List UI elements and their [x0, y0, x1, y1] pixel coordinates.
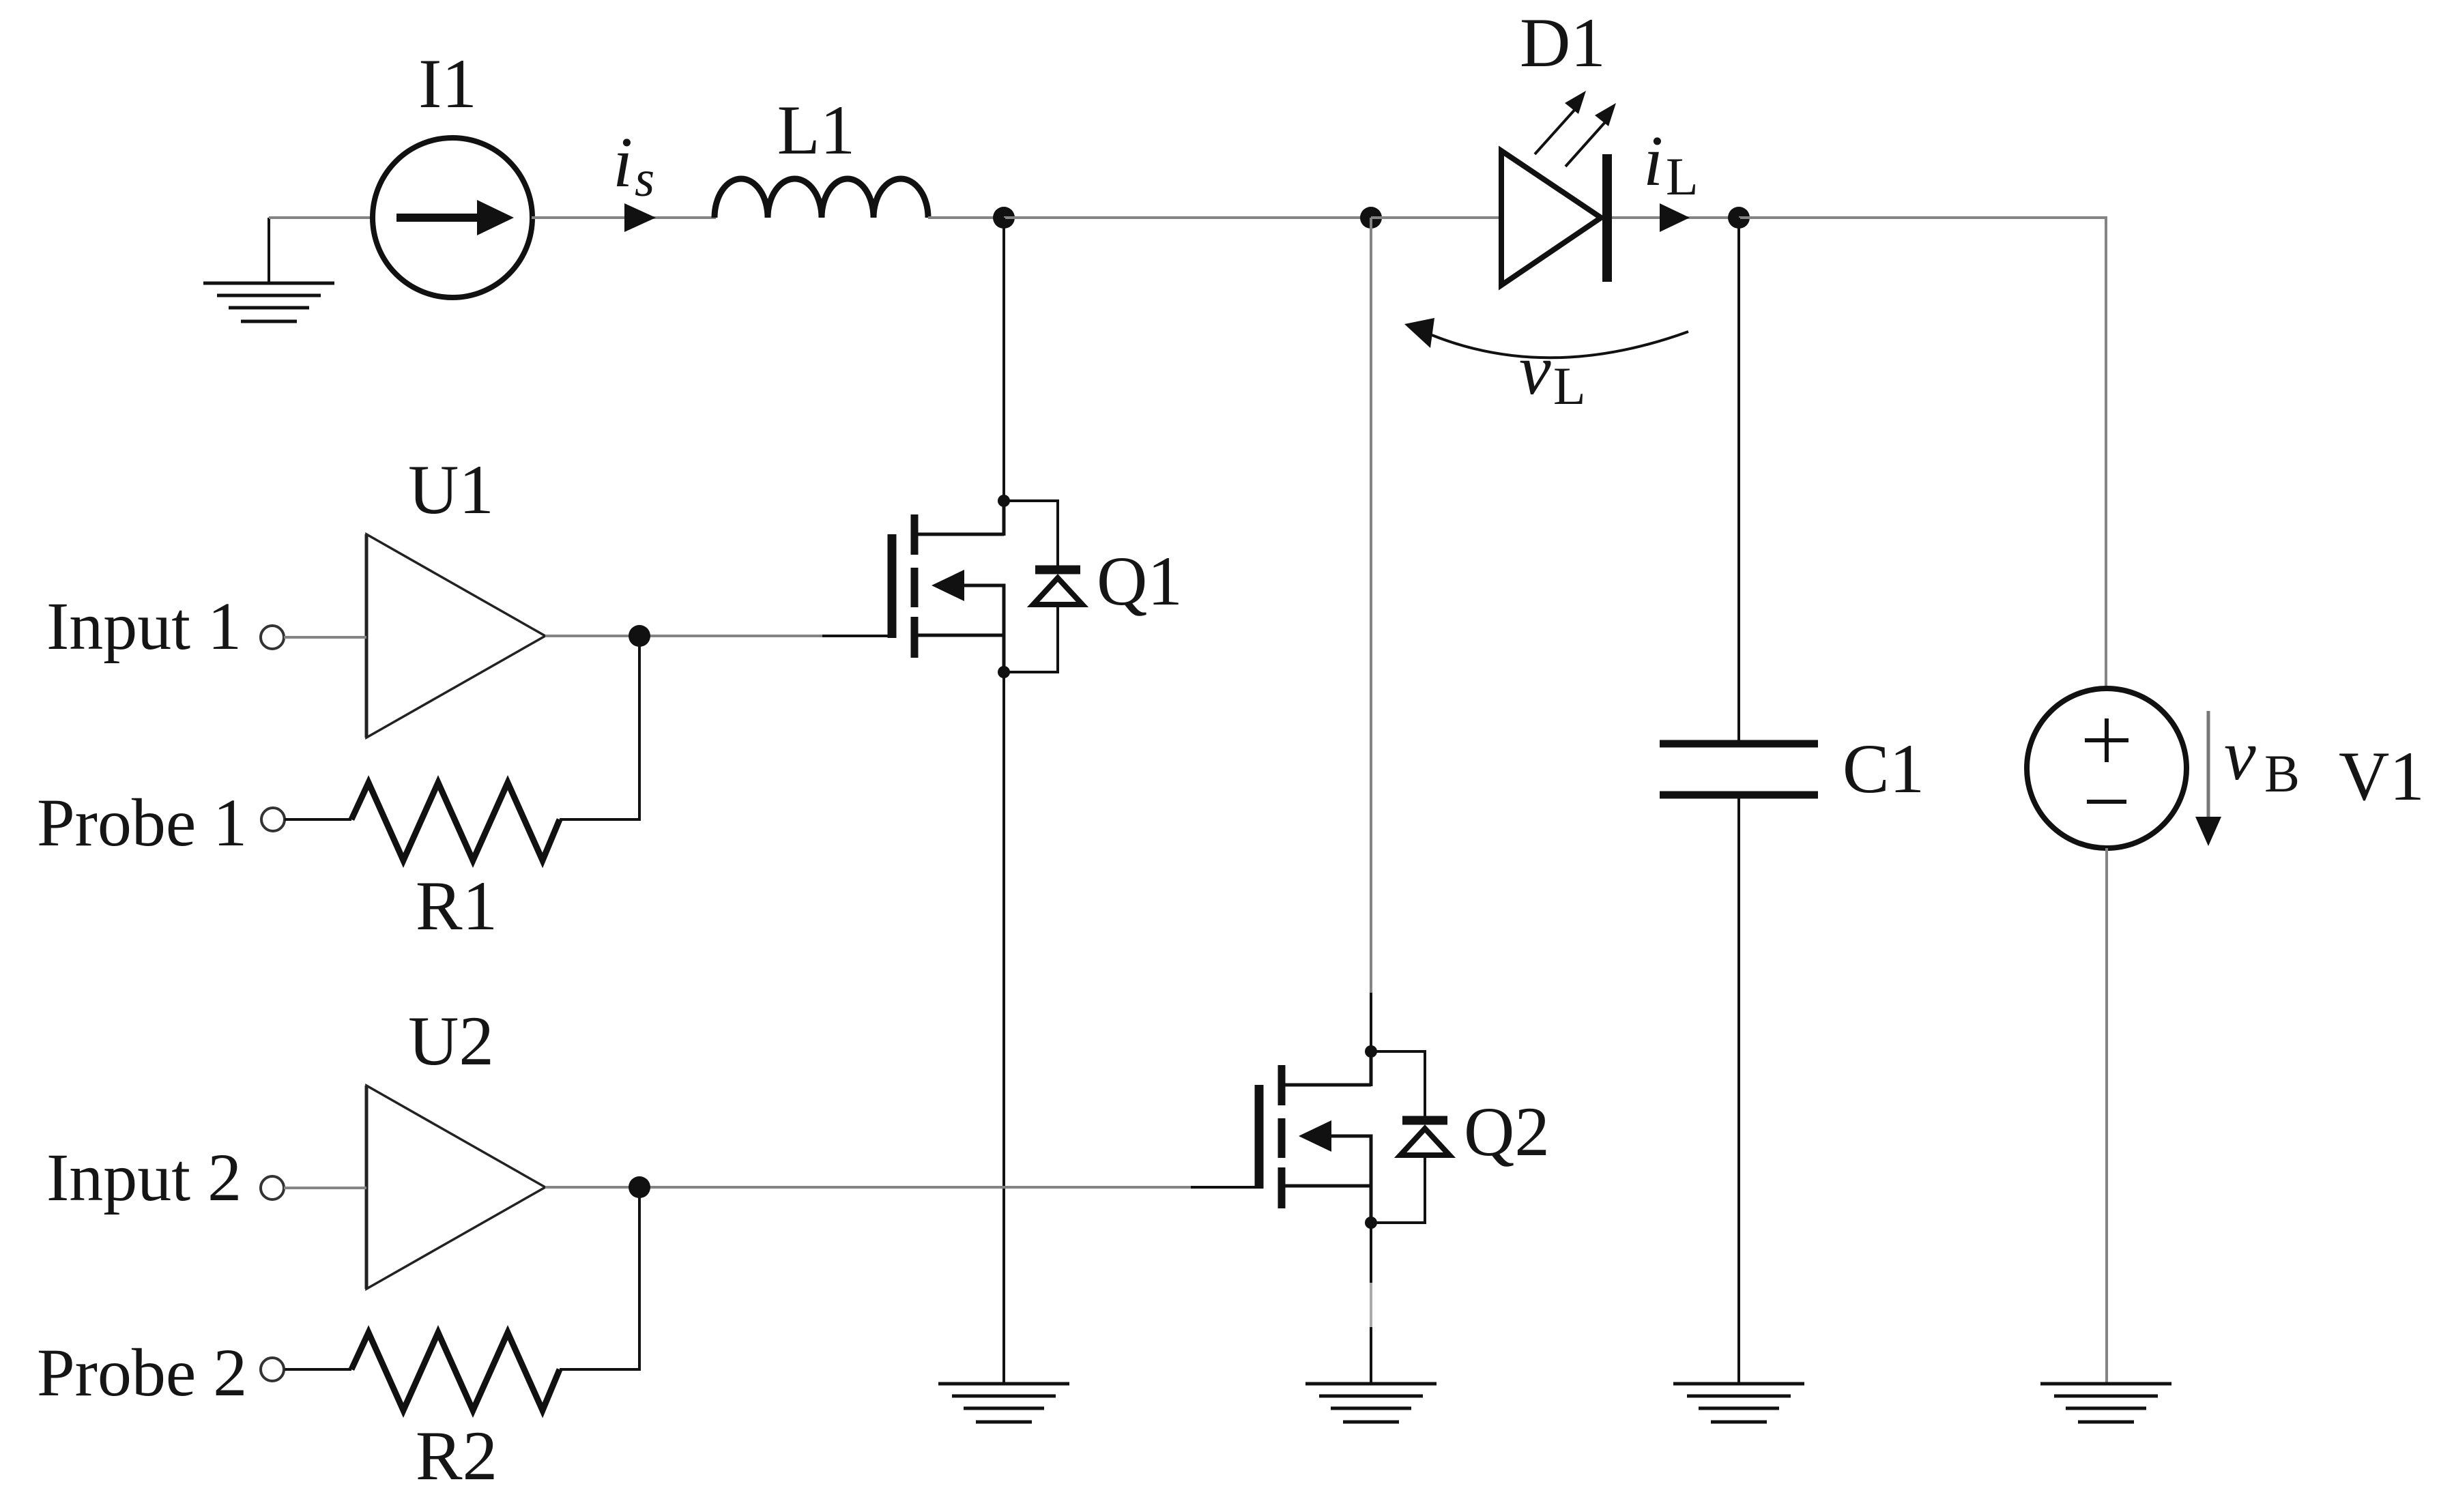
ground (V1 negative)	[2040, 1384, 2171, 1422]
node C (output net)	[1728, 207, 1750, 229]
wire (ground to I1)	[269, 216, 374, 219]
terminal Input 2	[261, 1176, 284, 1200]
wire (V1 to ground)	[2105, 848, 2108, 1384]
svg-text:R2: R2	[416, 1417, 497, 1495]
wire (Input 2 to U2)	[284, 1187, 366, 1189]
svg-text:Probe 2: Probe 2	[37, 1335, 247, 1410]
capacitor C1	[1660, 744, 1818, 795]
body diode of Q2	[1371, 1051, 1449, 1223]
wire (Input 1 to U1)	[284, 636, 366, 639]
transistor Q1	[892, 495, 1010, 678]
wire (U2 output to Q2 gate)	[545, 1186, 1259, 1189]
svg-text:U1: U1	[408, 451, 494, 529]
svg-text:Probe 1: Probe 1	[37, 785, 247, 860]
wire (C1 to ground)	[1737, 798, 1740, 1384]
svg-text:B: B	[2264, 744, 2300, 803]
node A (Q1 drain net)	[993, 207, 1015, 229]
wire (I1 to L1)	[532, 216, 716, 219]
label R1	[416, 867, 497, 945]
label C1	[1843, 730, 1924, 808]
label Probe 1	[37, 785, 247, 860]
terminal Input 1	[261, 626, 284, 649]
resistor R1	[351, 783, 560, 860]
svg-text:i: i	[613, 122, 633, 202]
wire (Q2 source to ground)	[1370, 1223, 1372, 1384]
wire (node A to Q1 drain)	[1002, 218, 1005, 501]
label D1	[1520, 4, 1606, 82]
current arrow i_L	[1660, 203, 1690, 232]
svg-text:v: v	[1519, 330, 1551, 409]
label Input 1	[46, 588, 242, 664]
wire (node A to node B)	[1004, 216, 1371, 219]
svg-text:i: i	[1643, 121, 1663, 201]
node (U2 output junction)	[629, 1176, 650, 1198]
ground (Q2 source)	[1305, 1384, 1437, 1422]
label i_L	[1643, 121, 1699, 206]
current source I1	[373, 138, 532, 297]
label Input 2	[46, 1139, 242, 1215]
ground (Q1 source)	[938, 1384, 1069, 1422]
svg-text:Q2: Q2	[1464, 1093, 1550, 1171]
LED D1	[1501, 91, 1616, 285]
node (U1 output junction)	[629, 625, 650, 647]
op-amp buffer U2	[366, 1086, 545, 1289]
svg-text:U2: U2	[408, 1002, 494, 1080]
wire (node C to V1)	[1739, 218, 2106, 688]
svg-text:V1: V1	[2339, 738, 2425, 815]
wire (node C to C1)	[1737, 218, 1740, 740]
body diode of Q1	[1004, 501, 1082, 672]
label L1	[777, 91, 855, 169]
voltage arrow v_L	[1404, 318, 1688, 358]
terminal Probe 2	[261, 1358, 284, 1381]
label Q2	[1464, 1093, 1550, 1171]
wire (node B to D1 anode)	[1371, 216, 1500, 219]
svg-text:v: v	[2224, 715, 2256, 795]
label i_s	[613, 122, 654, 207]
ground (current source I1 return)	[203, 218, 334, 321]
op-amp buffer U1	[366, 534, 545, 738]
wire (L1 to node A)	[928, 216, 1004, 219]
wire (node B to Q2 drain)	[1370, 218, 1372, 1051]
node B (Q2 drain net)	[1360, 207, 1382, 229]
svg-text:D1: D1	[1520, 4, 1606, 82]
wire (D1 cathode to node C)	[1612, 216, 1739, 219]
wire (U1 output to Q1 gate)	[545, 635, 888, 637]
voltage arrow v_B	[2195, 711, 2221, 846]
label U1	[408, 451, 494, 529]
wire (Q1 source to ground)	[1002, 672, 1005, 1384]
terminal Probe 1	[261, 808, 285, 831]
transistor Q2	[1259, 1045, 1377, 1229]
label R2	[416, 1417, 497, 1495]
resistor R2	[351, 1333, 560, 1410]
label v_L	[1519, 330, 1586, 416]
voltage source V1	[2027, 688, 2187, 848]
wire (R2 to U2 output node)	[560, 1195, 639, 1369]
svg-text:L: L	[1666, 147, 1699, 206]
svg-text:L: L	[1553, 356, 1586, 416]
inductor L1	[715, 179, 928, 218]
label Probe 2	[37, 1335, 247, 1410]
label U2	[408, 1002, 494, 1080]
svg-text:Input 1: Input 1	[46, 588, 242, 664]
wire (Probe 1 to R1)	[285, 818, 351, 821]
label Q1	[1097, 542, 1183, 620]
current arrow i_s	[624, 203, 656, 232]
wire (R1 to U1 output node)	[560, 644, 639, 819]
svg-text:C1: C1	[1843, 730, 1924, 808]
label V1	[2339, 738, 2425, 815]
svg-text:Input 2: Input 2	[46, 1139, 242, 1215]
svg-text:R1: R1	[416, 867, 497, 945]
label v_B	[2224, 715, 2300, 803]
wire (Probe 2 to R2)	[285, 1368, 351, 1371]
ground (C1)	[1673, 1384, 1804, 1422]
svg-text:I1: I1	[418, 45, 477, 123]
svg-text:s: s	[635, 151, 654, 207]
label I1	[418, 45, 477, 123]
svg-text:Q1: Q1	[1097, 542, 1183, 620]
svg-text:L1: L1	[777, 91, 855, 169]
